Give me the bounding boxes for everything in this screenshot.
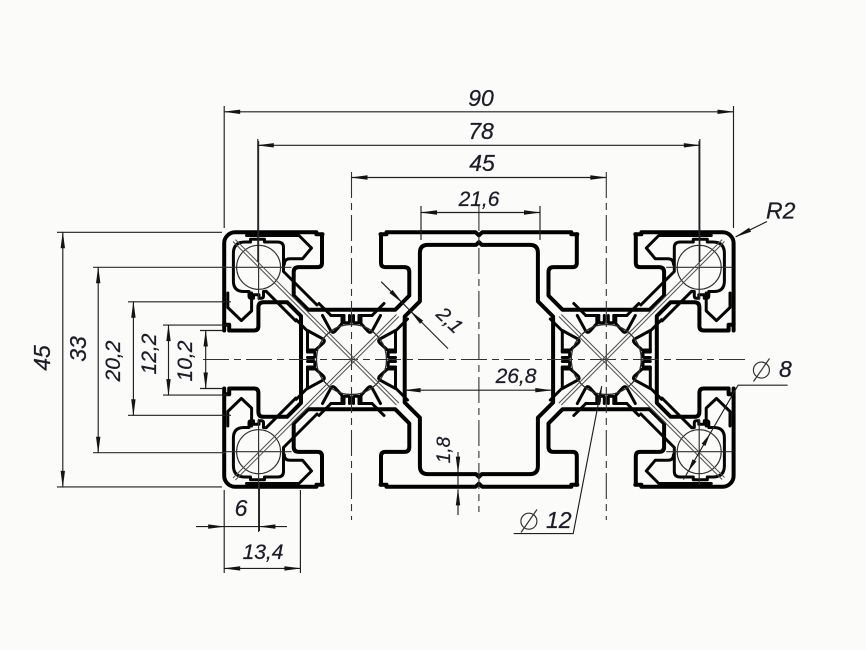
dimension 2,1 upper leader arrow — [381, 282, 402, 303]
X-boss rib channel stub lower-left — [296, 320, 307, 331]
X-boss tooth top-right — [361, 316, 381, 333]
svg-text:8: 8 — [779, 356, 792, 382]
X-boss top face notch left — [344, 316, 350, 323]
diameter 8 symbol slash — [754, 359, 770, 382]
svg-text:13,4: 13,4 — [243, 541, 284, 564]
svg-text:26,8: 26,8 — [495, 365, 537, 388]
svg-text:45: 45 — [29, 345, 55, 371]
mirrored quarter: bottom-left — [224, 325, 479, 487]
dimension 20,2 line with arrows — [132, 302, 134, 416]
vertical centerline of profile — [478, 205, 480, 512]
side T-slot cavity upper half — [224, 302, 301, 359]
dimension 78 line with arrows — [258, 144, 700, 146]
dimension 6 line — [224, 526, 259, 528]
dimension 1,8 lower arrow — [457, 489, 459, 515]
dimension 1,8 upper arrow — [457, 452, 459, 473]
X-boss rib channel stub right outer — [396, 319, 408, 331]
outer contour top-left (with R2 corner and slot lip rebates) — [224, 232, 479, 330]
mirrored quarter: top-right — [479, 232, 734, 394]
X-boss cavity right wall — [394, 331, 397, 352]
diameter 12 symbol slash — [521, 510, 537, 533]
dimension 6 outside arrow right — [259, 526, 287, 528]
dimension 45 left extension lines — [57, 232, 222, 487]
dimension 26,8 line with arrows — [405, 389, 552, 391]
svg-text:33: 33 — [65, 336, 91, 362]
diagonal rib line bottom-right to center — [559, 315, 725, 480]
X-boss bore circle (diam 12) — [317, 325, 387, 395]
dimension 20,2 extension lines — [128, 302, 231, 416]
X-boss rib channel stub upper-left — [319, 304, 331, 316]
diameter 8 leader with shelf — [684, 385, 788, 479]
dimension 12,2 line with arrows — [168, 325, 170, 395]
top T-slot cavity (lips, arms, tunnel floor) — [294, 234, 410, 309]
X-boss left face notch — [308, 352, 315, 358]
diameter 8 symbol circle — [753, 362, 769, 378]
radius R2 leader arrow — [736, 222, 767, 237]
dimension 2,1 lower leader arrow — [410, 311, 448, 349]
svg-text:90: 90 — [468, 85, 494, 111]
svg-text:20,2: 20,2 — [102, 340, 125, 382]
dimension 90 line with arrows — [224, 111, 733, 113]
svg-text:12,2: 12,2 — [138, 333, 161, 374]
dimension 33 line with arrows — [97, 267, 99, 452]
diagonal rib line top-left to center — [233, 240, 399, 405]
diameter 12 leader with shelf — [514, 386, 602, 533]
X-boss tooth left-top — [308, 331, 325, 351]
X-boss top face notch right — [354, 316, 360, 323]
dimension 6 outside arrow left — [196, 526, 224, 528]
svg-text:21,6: 21,6 — [458, 188, 500, 211]
corner hole centerline extensions — [93, 141, 699, 532]
X-boss tooth top-left — [323, 316, 343, 333]
svg-text:R2: R2 — [766, 198, 796, 224]
X-boss tooth right-top — [379, 331, 396, 351]
X-boss right face notch — [388, 352, 395, 358]
dimension 78 extension lines — [258, 139, 700, 262]
corner screw boss ring with rib channel walls — [233, 239, 317, 321]
svg-text:1,8: 1,8 — [434, 436, 455, 463]
diameter 12 symbol circle — [521, 513, 537, 529]
dimension 2,1 crossing segment — [402, 303, 410, 311]
dimension 90 extension lines — [224, 106, 733, 228]
diagonal rib line bottom-left to center — [233, 315, 399, 481]
dimension 21,6 line with arrows — [421, 212, 540, 214]
central box wall (left half, ceiling with center dimple) — [405, 242, 479, 359]
mirrored quarter: bottom-right — [479, 325, 734, 487]
diagonal rib line top-right to center — [559, 240, 725, 405]
dimension 12,2 extension lines — [163, 325, 228, 395]
svg-text:10,2: 10,2 — [174, 340, 197, 381]
dimension 10,2 extension lines — [200, 331, 223, 389]
dimension 6 extension lines — [224, 482, 300, 573]
svg-text:6: 6 — [235, 495, 248, 521]
dimension 21,6 extension lines — [421, 206, 540, 240]
svg-text:12: 12 — [546, 507, 572, 533]
X-boss cavity left wall — [306, 331, 309, 352]
X-boss cavity top wall — [331, 314, 372, 317]
corner hole circle (diam 8) — [237, 245, 281, 289]
side slot sliver pocket beside corner boss — [228, 293, 252, 321]
vertical centerline left module — [351, 172, 353, 520]
vertical centerline right module — [605, 172, 607, 520]
profile quarter group (top-left quarter of extrusion body, mirrored 4x) — [224, 232, 479, 394]
dimension 45 top line with arrows — [352, 177, 607, 179]
dimension 1,8 gap segment — [457, 476, 459, 486]
horizontal main centerline — [203, 359, 748, 361]
svg-text:78: 78 — [468, 118, 494, 144]
dimension 10,2 line with arrows — [205, 331, 207, 389]
dimension 45 left line with arrows — [62, 232, 64, 487]
corner hole crosshair centerlines — [226, 234, 292, 300]
svg-text:45: 45 — [469, 150, 495, 176]
dimension 13,4 line with arrows — [224, 567, 300, 569]
diameter 8 arrow upper — [702, 434, 710, 446]
top slot arm pocket over corner boss — [247, 236, 312, 265]
X-boss rib channel stub right inner — [372, 304, 384, 316]
diameter 8 arrow lower — [688, 459, 696, 471]
